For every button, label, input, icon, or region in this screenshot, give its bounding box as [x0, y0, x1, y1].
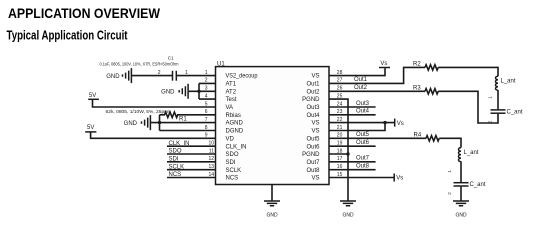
wire stub U1 pin 8 DGND [160, 130, 216, 132]
svg-text:Vs: Vs [380, 61, 387, 67]
svg-text:SDO: SDO [226, 152, 239, 158]
wire U1 pin 24 Out3 [329, 106, 376, 108]
op-amp U1 IC body [216, 61, 330, 184]
svg-text:SDI: SDI [226, 160, 236, 166]
svg-text:GND: GND [124, 121, 138, 127]
wire U1 pin 18 PGND to ground bus [329, 153, 348, 155]
ground GND for PGND bus [340, 201, 356, 218]
ground GND under U1 [264, 201, 280, 218]
svg-text:Out6: Out6 [306, 144, 320, 150]
svg-text:L_ant: L_ant [501, 79, 516, 85]
wire U1 pin 16 Out8 [329, 169, 376, 171]
resistor R2 [413, 62, 438, 71]
wire 5V to U1 pin 9 VD [91, 132, 216, 138]
svg-text:APPLICATION OVERVIEW: APPLICATION OVERVIEW [8, 5, 161, 21]
wire U1 pin 23 Out4 [329, 114, 376, 116]
resistor R1 [160, 112, 216, 122]
svg-text:GND: GND [342, 212, 354, 218]
svg-text:Rbias: Rbias [226, 113, 241, 119]
ground GND at AT2/Test [161, 84, 188, 99]
wire 5V to U1 pin 5 VA [93, 99, 216, 107]
svg-text:Out7: Out7 [356, 156, 370, 162]
svg-text:AGND: AGND [226, 121, 244, 127]
resistor R4 [414, 132, 440, 141]
svg-text:0.1uF, 0805, 100V, 10%, X7R, E: 0.1uF, 0805, 100V, 10%, X7R, ESR<50mOhm [100, 62, 179, 67]
node junction at pin 7 [158, 121, 161, 124]
wire U1 pin 27 Out1 to R2 [329, 67, 425, 83]
svg-text:Out3: Out3 [356, 101, 370, 107]
svg-text:Typical Application Circuit: Typical Application Circuit [7, 29, 129, 43]
svg-text:Vs: Vs [397, 121, 404, 127]
svg-text:Out2: Out2 [306, 89, 320, 95]
node junction pin 18 PGND [346, 152, 349, 155]
svg-text:2: 2 [488, 120, 493, 123]
svg-text:C1: C1 [168, 55, 174, 60]
svg-text:5V: 5V [89, 93, 96, 99]
svg-text:VA: VA [226, 105, 234, 111]
svg-text:GND: GND [266, 212, 278, 218]
wire U1 pin 22 VS to Vs flag [329, 122, 394, 124]
svg-text:1: 1 [488, 96, 493, 99]
wire U1 pin 26 Out2 to R3 [329, 90, 425, 92]
svg-text:PGND: PGND [302, 152, 320, 158]
ground GND at C1 left [106, 68, 131, 83]
ground GND antenna 2 [453, 201, 469, 218]
wire U1 pin 25 PGND down to ground bus [329, 99, 348, 201]
wire SCLK to U1 pin 13 [167, 169, 216, 171]
svg-text:Vs: Vs [396, 176, 403, 182]
wire U1 pin 15 VS to Vs flag [329, 177, 394, 179]
wire L_ant to C_ant antenna 1 [497, 90, 499, 109]
svg-text:R2: R2 [413, 62, 421, 68]
svg-text:AT2: AT2 [226, 89, 237, 95]
svg-text:VS: VS [311, 176, 319, 182]
node junction pins 21-22 [383, 121, 386, 124]
svg-text:NCS: NCS [226, 176, 239, 182]
svg-text:VS: VS [311, 121, 319, 127]
wire C_ant to ground antenna 2 [460, 187, 462, 201]
wire L_ant to C_ant antenna 2 [460, 161, 462, 182]
wire GND to node pins 2-3-4 [189, 90, 216, 92]
wire U1 pin 19 Out6 [329, 145, 376, 147]
svg-text:SCLK: SCLK [226, 168, 242, 174]
svg-text:GND: GND [161, 90, 175, 96]
power flag Vs right middle [395, 119, 404, 127]
svg-text:Out8: Out8 [356, 164, 370, 170]
wire U1 pin 28 VS to Vs flag [329, 68, 385, 76]
wire GND to C1 plate [132, 75, 172, 77]
power flag 5V for VD [85, 125, 96, 132]
svg-text:Test: Test [226, 97, 237, 103]
svg-text:Out5: Out5 [356, 132, 370, 138]
svg-text:Out1: Out1 [354, 77, 368, 83]
svg-text:DGND: DGND [226, 129, 244, 135]
wire U1 bottom to ground [271, 185, 273, 202]
wire C1 to U1 pin 1 [177, 75, 216, 77]
wire NCS to U1 pin 14 [167, 177, 216, 179]
svg-text:R4: R4 [414, 132, 422, 138]
svg-text:2: 2 [447, 192, 452, 195]
wire R3 to C_ant bottom antenna 1 [438, 91, 498, 123]
wire stub U1 pin 4 [199, 98, 216, 100]
svg-text:PGND: PGND [302, 97, 320, 103]
svg-text:Out4: Out4 [306, 113, 320, 119]
svg-text:C_ant: C_ant [507, 109, 523, 115]
power flag Vs top [379, 61, 390, 67]
power flag Vs right bottom [394, 174, 403, 182]
svg-text:VD: VD [226, 136, 235, 142]
svg-text:GND: GND [455, 212, 467, 218]
svg-text:Out5: Out5 [306, 136, 320, 142]
ground GND at R1/AGND [124, 115, 151, 130]
svg-text:1: 1 [447, 170, 452, 173]
wire GND to node pin 7 [151, 122, 216, 124]
wire bracket vertical pins 2-4 [198, 83, 200, 99]
svg-text:VS2_decoup: VS2_decoup [226, 74, 259, 80]
wire SDO to U1 pin 11 [167, 153, 216, 155]
node junction at pin 3 [197, 90, 200, 93]
svg-text:Out3: Out3 [306, 105, 320, 111]
capacitor C_ant antenna 1 [491, 109, 523, 115]
svg-text:VS: VS [311, 74, 319, 80]
svg-text:Out4: Out4 [356, 109, 370, 115]
svg-text:Out8: Out8 [306, 168, 320, 174]
svg-text:R3: R3 [413, 85, 421, 91]
svg-text:VS: VS [311, 129, 319, 135]
svg-text:Out2: Out2 [354, 85, 368, 91]
power flag 5V for VA [88, 93, 99, 100]
wire U1 pin 21 VS up to junction [329, 123, 385, 131]
svg-text:2: 2 [158, 70, 161, 76]
svg-text:5V: 5V [87, 125, 94, 131]
svg-text:CLK_IN: CLK_IN [226, 144, 247, 150]
svg-text:C_ant: C_ant [470, 182, 486, 188]
svg-text:GND: GND [106, 74, 120, 80]
wire U1 pin 17 Out7 [329, 161, 376, 163]
inductor L_ant antenna 1 [496, 76, 516, 90]
wire stub U1 pin 2 [199, 82, 216, 84]
wire bracket vertical pins 6-8 [159, 115, 161, 131]
wire U1 pin 20 Out5 to R4 [329, 137, 426, 139]
svg-text:R1: R1 [179, 117, 187, 123]
svg-text:Out1: Out1 [306, 82, 320, 88]
svg-text:Out7: Out7 [306, 160, 320, 166]
wire R4 to L_ant antenna 2 [439, 138, 461, 147]
capacitor C_ant antenna 2 [454, 182, 486, 188]
svg-text:AT1: AT1 [226, 82, 237, 88]
wire R2 to L_ant antenna 1 [438, 67, 498, 76]
svg-text:L_ant: L_ant [464, 150, 479, 156]
svg-text:62k, 0805, 1/10W, 5%, 25ppm: 62k, 0805, 1/10W, 5%, 25ppm [106, 109, 172, 114]
inductor L_ant antenna 2 [459, 148, 479, 162]
svg-text:Out6: Out6 [356, 140, 370, 146]
capacitor C1 [173, 71, 177, 81]
wire SDI to U1 pin 12 [167, 161, 216, 163]
resistor R3 [413, 85, 438, 94]
wire CLK_IN to U1 pin 10 [167, 145, 216, 147]
svg-text:U1: U1 [217, 61, 225, 67]
